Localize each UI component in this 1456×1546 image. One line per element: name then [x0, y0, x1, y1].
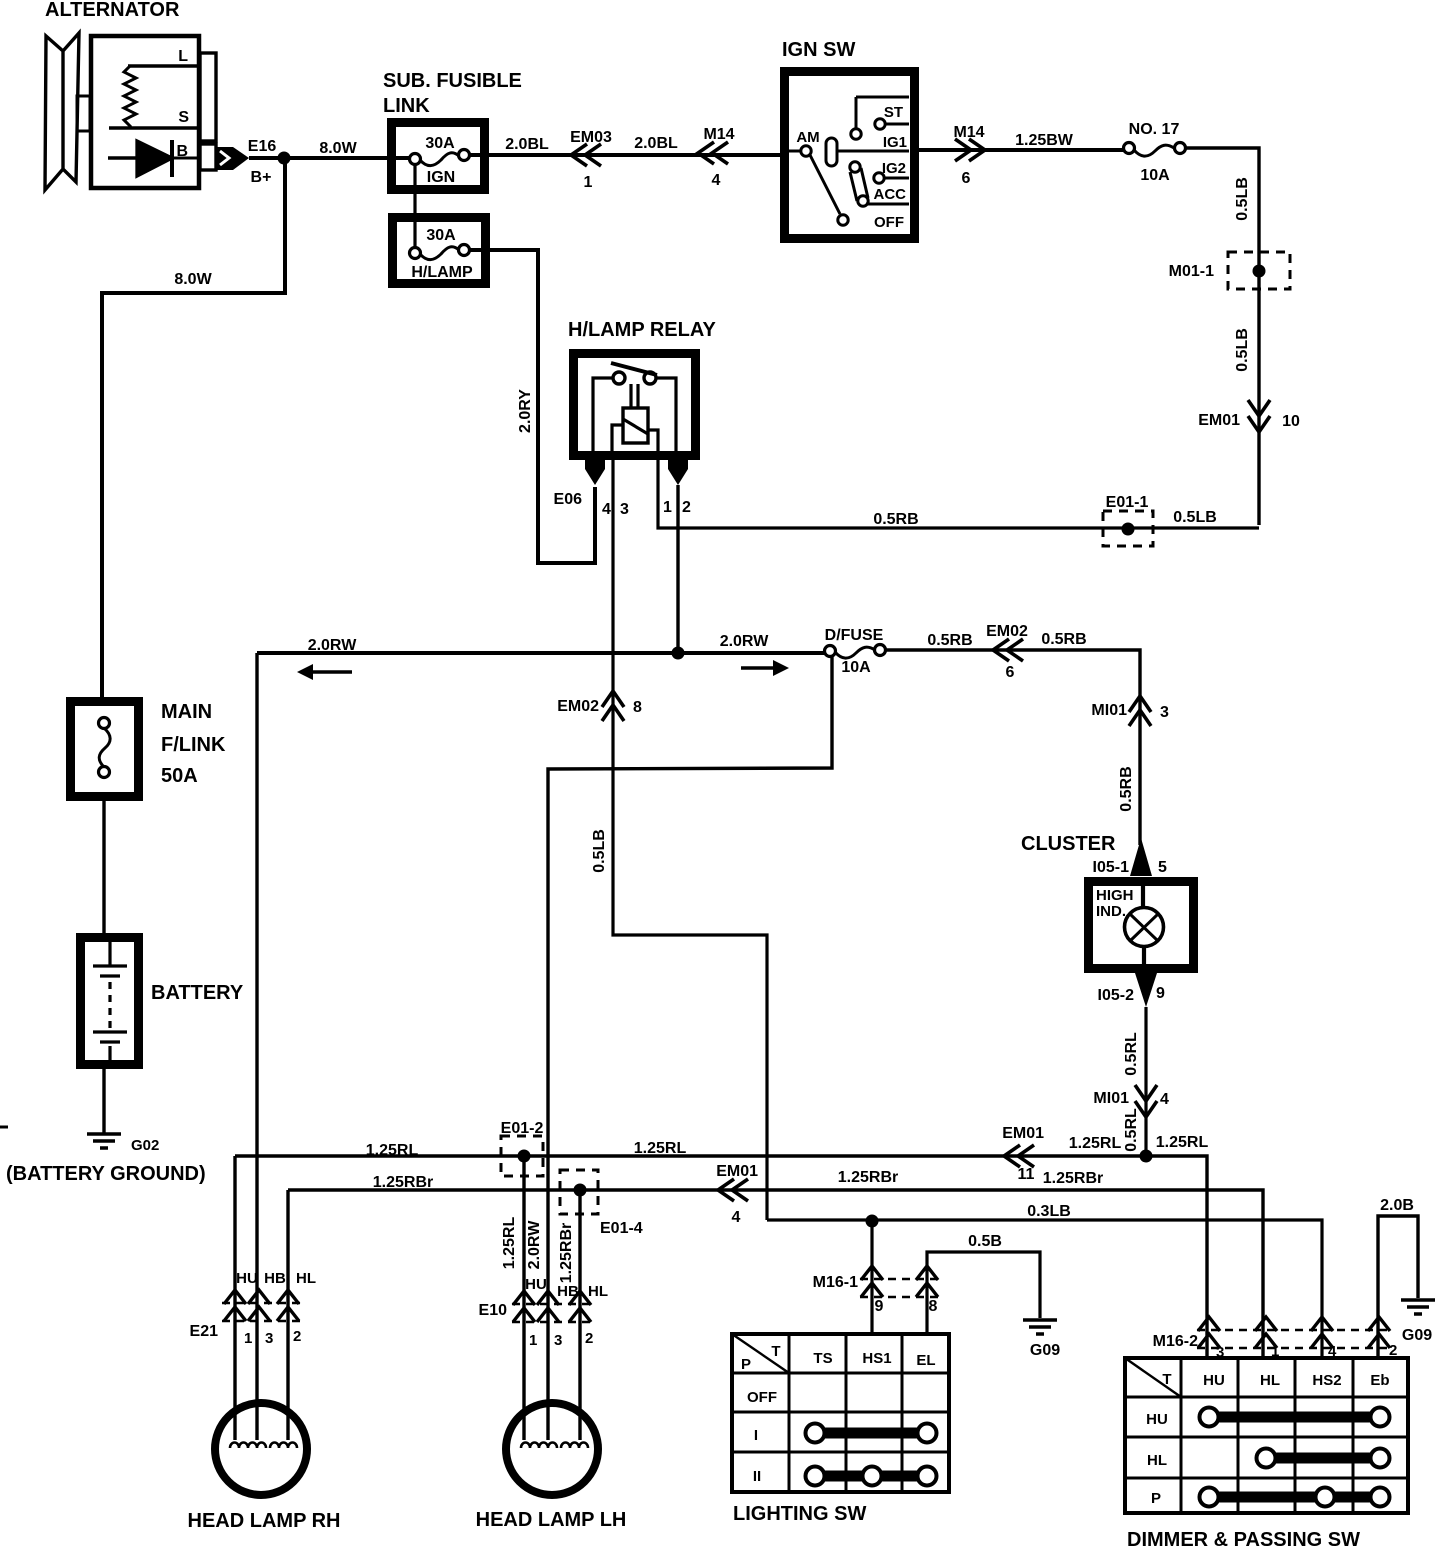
svg-text:OFF: OFF — [747, 1389, 777, 1406]
svg-text:I05-2: I05-2 — [1098, 987, 1135, 1004]
svg-text:IGN: IGN — [427, 169, 455, 186]
svg-text:1.25RBr: 1.25RBr — [558, 1223, 575, 1283]
svg-text:HL: HL — [588, 1283, 608, 1300]
svg-text:B: B — [176, 143, 188, 160]
svg-text:9: 9 — [875, 1298, 884, 1315]
svg-text:2.0B: 2.0B — [1380, 1197, 1414, 1214]
svg-text:8.0W: 8.0W — [319, 140, 357, 157]
svg-text:CLUSTER: CLUSTER — [1021, 833, 1116, 855]
svg-text:T: T — [771, 1343, 780, 1360]
svg-text:2: 2 — [1389, 1342, 1397, 1359]
svg-text:HIGH: HIGH — [1096, 887, 1134, 904]
svg-text:0.5B: 0.5B — [968, 1233, 1002, 1250]
svg-text:TS: TS — [813, 1350, 832, 1367]
svg-text:G09: G09 — [1402, 1327, 1432, 1344]
svg-text:1: 1 — [529, 1332, 537, 1349]
svg-text:2.0RW: 2.0RW — [308, 637, 358, 654]
svg-text:IG2: IG2 — [882, 160, 906, 177]
svg-text:4: 4 — [1160, 1091, 1169, 1108]
svg-text:NO. 17: NO. 17 — [1129, 121, 1180, 138]
svg-text:2: 2 — [585, 1330, 593, 1347]
svg-text:10: 10 — [1282, 413, 1300, 430]
svg-text:2.0RY: 2.0RY — [517, 389, 534, 433]
svg-text:30A: 30A — [425, 135, 455, 152]
svg-text:6: 6 — [1006, 664, 1015, 681]
svg-text:1: 1 — [584, 174, 593, 191]
svg-text:EM02: EM02 — [557, 698, 599, 715]
svg-text:ST: ST — [884, 104, 903, 121]
svg-text:L: L — [178, 48, 188, 65]
svg-text:9: 9 — [1156, 985, 1165, 1002]
svg-text:IND.: IND. — [1096, 903, 1126, 920]
svg-text:4: 4 — [732, 1209, 741, 1226]
svg-text:I: I — [754, 1427, 758, 1444]
svg-text:0.3LB: 0.3LB — [1027, 1203, 1071, 1220]
svg-text:0.5RB: 0.5RB — [927, 632, 972, 649]
svg-text:II: II — [753, 1468, 761, 1485]
svg-text:S: S — [178, 109, 189, 126]
svg-text:8: 8 — [929, 1298, 938, 1315]
svg-text:HL: HL — [296, 1270, 316, 1287]
svg-text:3: 3 — [265, 1330, 273, 1347]
svg-text:T: T — [1162, 1371, 1171, 1388]
svg-text:2.0RW: 2.0RW — [720, 633, 770, 650]
svg-text:HU: HU — [1146, 1411, 1168, 1428]
svg-text:HS2: HS2 — [1312, 1372, 1341, 1389]
svg-text:B+: B+ — [251, 169, 272, 186]
svg-text:HU: HU — [525, 1276, 547, 1293]
svg-text:4: 4 — [712, 172, 721, 189]
svg-text:Eb: Eb — [1370, 1372, 1389, 1389]
svg-text:5: 5 — [1158, 859, 1167, 876]
svg-text:1.25RBr: 1.25RBr — [838, 1169, 898, 1186]
svg-text:M14: M14 — [953, 124, 984, 141]
svg-text:4: 4 — [602, 501, 611, 518]
svg-text:0.5RB: 0.5RB — [1118, 766, 1135, 811]
svg-text:2.0RW: 2.0RW — [526, 1220, 543, 1270]
svg-text:E06: E06 — [554, 491, 583, 508]
svg-text:11: 11 — [1018, 1166, 1035, 1183]
svg-text:LINK: LINK — [383, 95, 430, 117]
svg-text:G02: G02 — [131, 1137, 159, 1154]
svg-text:1.25RL: 1.25RL — [634, 1140, 687, 1157]
svg-text:1.25BW: 1.25BW — [1015, 132, 1074, 149]
svg-text:H/LAMP: H/LAMP — [411, 264, 473, 281]
svg-text:8: 8 — [633, 699, 642, 716]
svg-text:E01-4: E01-4 — [600, 1220, 643, 1237]
svg-text:1.25RBr: 1.25RBr — [1043, 1170, 1103, 1187]
svg-text:E16: E16 — [248, 138, 277, 155]
svg-text:1: 1 — [244, 1330, 252, 1347]
svg-text:EM01: EM01 — [716, 1163, 758, 1180]
svg-text:IG1: IG1 — [883, 134, 907, 151]
svg-text:MI01: MI01 — [1093, 1090, 1129, 1107]
svg-text:3: 3 — [1216, 1344, 1224, 1361]
svg-text:M01-1: M01-1 — [1169, 263, 1214, 280]
svg-text:10A: 10A — [1140, 167, 1170, 184]
svg-text:3: 3 — [620, 501, 629, 518]
svg-text:(BATTERY GROUND): (BATTERY GROUND) — [6, 1163, 206, 1185]
svg-text:E21: E21 — [190, 1323, 219, 1340]
svg-text:MI01: MI01 — [1091, 702, 1127, 719]
svg-text:HL: HL — [1260, 1372, 1280, 1389]
svg-text:HU: HU — [236, 1270, 258, 1287]
svg-text:1.25RL: 1.25RL — [1156, 1134, 1209, 1151]
svg-text:HB: HB — [557, 1283, 579, 1300]
svg-text:EM03: EM03 — [570, 129, 612, 146]
svg-text:3: 3 — [554, 1332, 562, 1349]
svg-text:HU: HU — [1203, 1372, 1225, 1389]
svg-text:6: 6 — [962, 170, 971, 187]
svg-text:E01-2: E01-2 — [501, 1120, 544, 1137]
svg-text:E01-1: E01-1 — [1106, 494, 1149, 511]
svg-text:8.0W: 8.0W — [174, 271, 212, 288]
svg-text:MAIN: MAIN — [161, 701, 212, 723]
svg-text:0.5RB: 0.5RB — [873, 511, 918, 528]
svg-text:HS1: HS1 — [862, 1350, 891, 1367]
svg-text:EM01: EM01 — [1002, 1125, 1044, 1142]
svg-text:ACC: ACC — [874, 186, 907, 203]
svg-text:0.5LB: 0.5LB — [1173, 509, 1217, 526]
svg-text:10A: 10A — [841, 659, 871, 676]
svg-text:2: 2 — [682, 499, 691, 516]
svg-text:2.0BL: 2.0BL — [634, 135, 678, 152]
svg-text:1.25RL: 1.25RL — [366, 1142, 419, 1159]
svg-text:0.5LB: 0.5LB — [1234, 177, 1251, 221]
svg-text:2: 2 — [293, 1328, 301, 1345]
svg-text:30A: 30A — [426, 227, 456, 244]
svg-text:HB: HB — [264, 1270, 286, 1287]
svg-text:EM02: EM02 — [986, 623, 1028, 640]
svg-text:1: 1 — [1271, 1343, 1279, 1360]
svg-text:E10: E10 — [479, 1302, 508, 1319]
svg-text:EL: EL — [916, 1352, 935, 1369]
svg-text:M14: M14 — [703, 126, 734, 143]
svg-text:D/FUSE: D/FUSE — [825, 627, 884, 644]
svg-text:OFF: OFF — [874, 214, 904, 231]
svg-text:IGN SW: IGN SW — [782, 39, 855, 61]
svg-text:BATTERY: BATTERY — [151, 982, 244, 1004]
svg-text:0.5LB: 0.5LB — [1234, 328, 1251, 372]
svg-text:50A: 50A — [161, 765, 198, 787]
svg-text:DIMMER & PASSING SW: DIMMER & PASSING SW — [1127, 1529, 1360, 1546]
svg-text:1.25RL: 1.25RL — [501, 1217, 518, 1270]
svg-text:1.25RBr: 1.25RBr — [373, 1174, 433, 1191]
svg-text:M16-2: M16-2 — [1153, 1333, 1198, 1350]
svg-text:0.5LB: 0.5LB — [591, 829, 608, 873]
svg-text:HEAD LAMP RH: HEAD LAMP RH — [188, 1510, 341, 1532]
svg-text:H/LAMP RELAY: H/LAMP RELAY — [568, 319, 716, 341]
svg-text:0.5RB: 0.5RB — [1041, 631, 1086, 648]
svg-text:0.5RL: 0.5RL — [1123, 1032, 1140, 1076]
svg-text:4: 4 — [1328, 1343, 1337, 1360]
svg-text:ALTERNATOR: ALTERNATOR — [45, 0, 180, 21]
svg-text:AM: AM — [796, 129, 819, 146]
svg-text:SUB. FUSIBLE: SUB. FUSIBLE — [383, 70, 522, 92]
svg-text:P: P — [1151, 1490, 1161, 1507]
svg-text:HEAD LAMP LH: HEAD LAMP LH — [476, 1509, 627, 1531]
svg-text:F/LINK: F/LINK — [161, 734, 226, 756]
svg-text:3: 3 — [1160, 704, 1169, 721]
svg-text:I05-1: I05-1 — [1093, 859, 1130, 876]
svg-text:M16-1: M16-1 — [813, 1274, 858, 1291]
svg-text:P: P — [741, 1356, 751, 1373]
svg-text:1.25RL: 1.25RL — [1069, 1135, 1122, 1152]
svg-text:1: 1 — [663, 499, 672, 516]
svg-text:0.5RL: 0.5RL — [1123, 1108, 1140, 1152]
svg-text:G09: G09 — [1030, 1342, 1060, 1359]
svg-text:2.0BL: 2.0BL — [505, 136, 549, 153]
svg-text:EM01: EM01 — [1198, 412, 1240, 429]
svg-text:HL: HL — [1147, 1452, 1167, 1469]
svg-text:LIGHTING SW: LIGHTING SW — [733, 1503, 866, 1525]
